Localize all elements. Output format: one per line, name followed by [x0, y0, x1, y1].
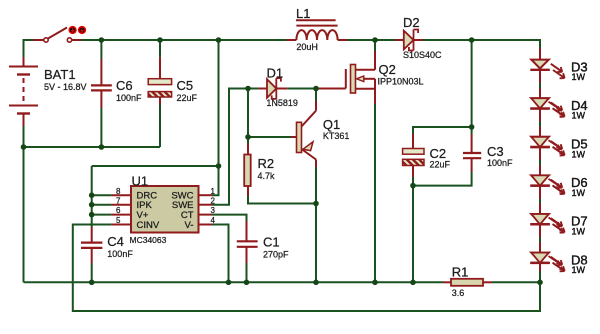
svg-text:C3: C3: [487, 144, 504, 159]
svg-text:V-: V-: [185, 220, 194, 231]
svg-text:IPP10N03L: IPP10N03L: [378, 77, 424, 87]
svg-text:3: 3: [211, 206, 216, 215]
svg-text:2: 2: [211, 196, 216, 205]
svg-text:20uH: 20uH: [296, 42, 318, 52]
svg-text:4.7k: 4.7k: [258, 171, 276, 181]
svg-text:S10S40C: S10S40C: [403, 50, 442, 60]
svg-text:C5: C5: [177, 78, 194, 93]
svg-text:5V - 16.8V: 5V - 16.8V: [44, 82, 87, 92]
svg-text:8: 8: [116, 187, 121, 196]
svg-text:7: 7: [116, 196, 121, 205]
svg-text:1: 1: [211, 187, 216, 196]
svg-text:D1: D1: [267, 66, 284, 81]
svg-text:1N5819: 1N5819: [266, 98, 298, 108]
svg-text:L1: L1: [296, 6, 310, 21]
svg-text:22uF: 22uF: [177, 93, 198, 103]
svg-text:C6: C6: [116, 78, 133, 93]
svg-text:1W: 1W: [572, 227, 586, 237]
svg-text:1W: 1W: [572, 72, 586, 82]
svg-text:270pF: 270pF: [263, 250, 289, 260]
svg-text:5: 5: [116, 216, 121, 225]
svg-text:1W: 1W: [572, 111, 586, 121]
svg-text:3.6: 3.6: [452, 288, 465, 298]
svg-text:CINV: CINV: [137, 220, 160, 231]
svg-text:100nF: 100nF: [487, 158, 513, 168]
svg-text:6: 6: [116, 206, 121, 215]
svg-text:R2: R2: [258, 156, 275, 171]
svg-text:C4: C4: [107, 234, 124, 249]
svg-text:MC34063: MC34063: [130, 235, 167, 245]
svg-text:100nF: 100nF: [107, 249, 133, 259]
svg-text:R1: R1: [452, 265, 469, 280]
svg-text:D2: D2: [403, 15, 420, 30]
svg-text:100nF: 100nF: [116, 93, 142, 103]
svg-text:4: 4: [211, 216, 216, 225]
svg-text:Q2: Q2: [379, 62, 396, 77]
svg-text:U1: U1: [132, 174, 149, 189]
svg-text:1W: 1W: [572, 149, 586, 159]
svg-text:1W: 1W: [572, 188, 586, 198]
svg-text:1W: 1W: [572, 265, 586, 275]
svg-text:KT361: KT361: [323, 131, 350, 141]
svg-text:Q1: Q1: [323, 117, 340, 132]
svg-text:22uF: 22uF: [430, 160, 451, 170]
svg-text:BAT1: BAT1: [44, 67, 76, 82]
svg-text:C1: C1: [263, 235, 280, 250]
